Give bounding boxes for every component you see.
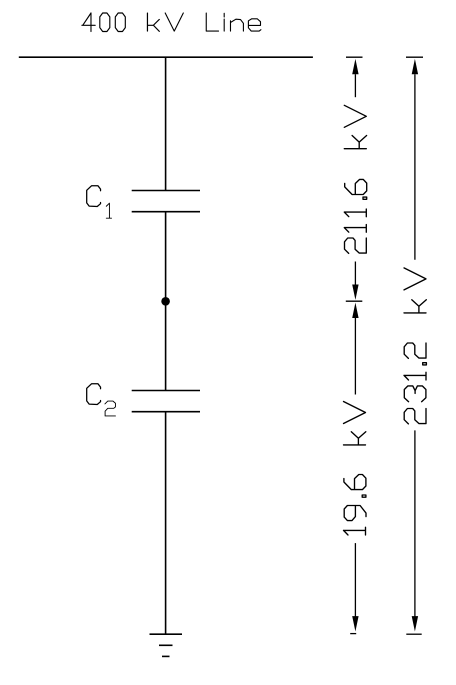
wire from node to C2 [165, 301, 167, 390]
wire from C2 to ground [165, 412, 167, 635]
dimension arrow up, 211.6 kV top [352, 59, 358, 74]
label C1 [87, 186, 112, 218]
capacitor C1 [132, 191, 200, 212]
extension tick at node level [346, 300, 363, 302]
value label 231.2 kV (rotated) [404, 268, 426, 424]
dimension line 231.2 kV lower segment [414, 430, 416, 616]
dimension arrow down, 19.6 kV bottom [352, 616, 358, 631]
wire: 400 kV bus line [19, 56, 313, 58]
value label 211.6 kV (rotated) [344, 105, 366, 253]
dimension line 19.6 kV lower segment [354, 543, 356, 617]
dimension arrow down, 231.2 kV bottom [412, 616, 418, 631]
extension tick at bus level (231.2 kV dim) [406, 56, 423, 58]
dimension arrow up, 231.2 kV top [412, 59, 418, 74]
ground symbol [150, 634, 183, 656]
dimension arrow down, 211.6 kV bottom [352, 285, 358, 300]
label: 400 kV Line title [82, 13, 261, 32]
capacitor C2 [132, 391, 200, 412]
extension tick at ground level (231.2 kV dim) [406, 633, 421, 635]
dimension line 211.6 kV lower segment [354, 262, 356, 287]
dimension line 19.6 kV upper segment [354, 317, 356, 394]
node junction dot [161, 297, 170, 306]
label C2 [87, 384, 116, 416]
extension tick at bus level (211.6 kV dim) [346, 56, 363, 58]
dimension line 211.6 kV upper segment [354, 74, 356, 97]
extension tick at ground level (19.6 kV dim) [350, 633, 356, 635]
value label 19.6 kV (rotated) [344, 402, 367, 536]
dimension arrow up, 19.6 kV top [352, 303, 358, 318]
dimension line 231.2 kV upper segment [414, 74, 416, 260]
wire from bus to C1 [165, 57, 167, 190]
wire from C1 to node [165, 212, 167, 302]
